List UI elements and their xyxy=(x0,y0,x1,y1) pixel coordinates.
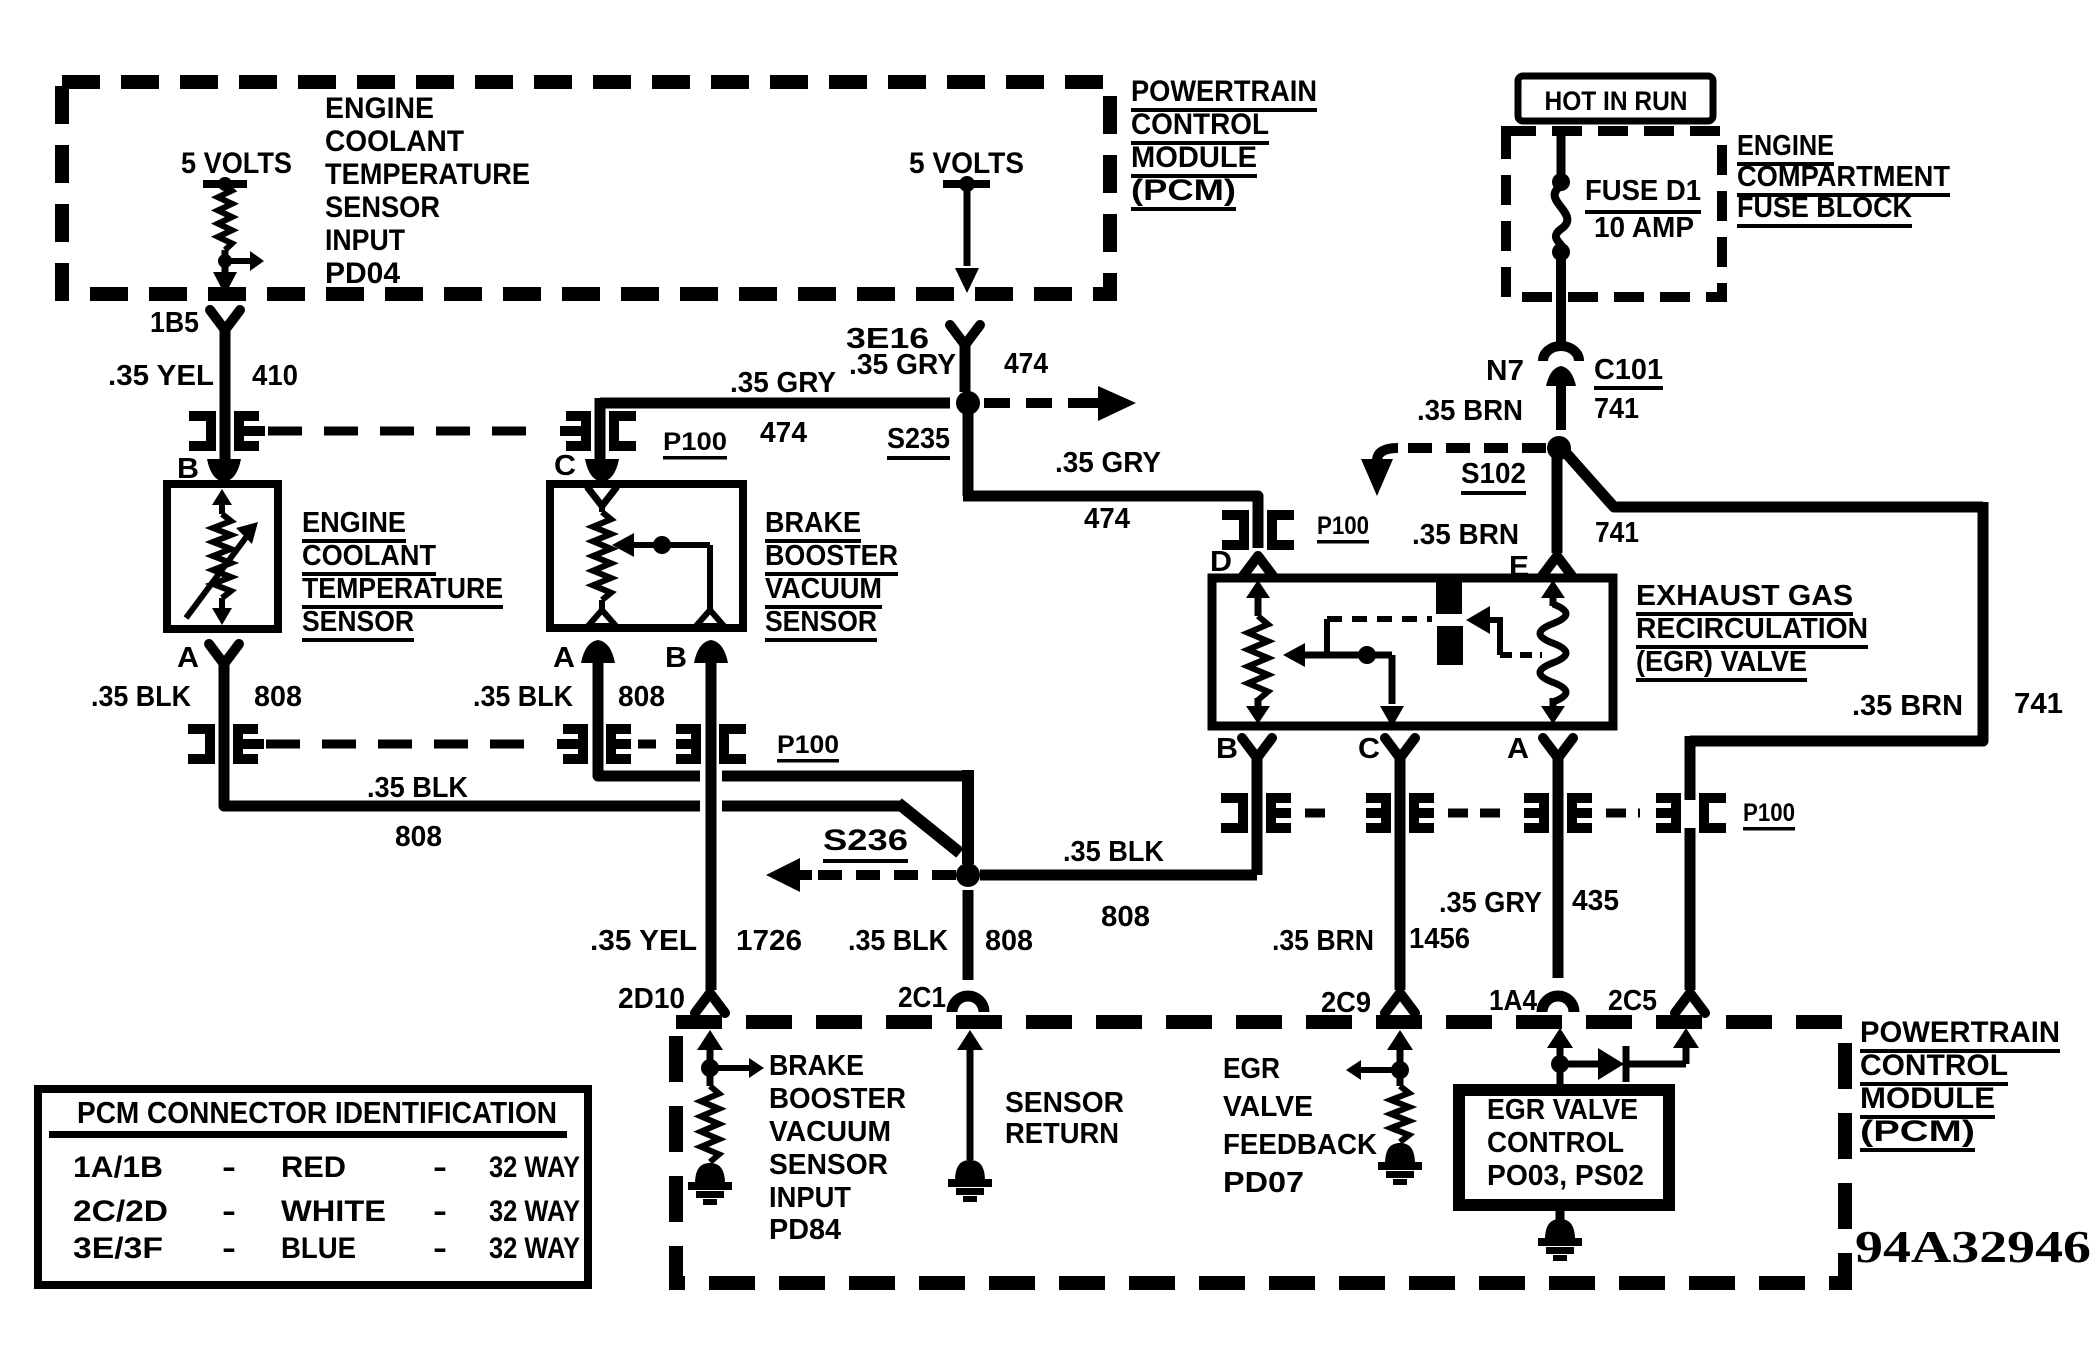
wire 808 BLK horizontal (ECT A to S236) xyxy=(224,800,700,806)
svg-text:INPUT: INPUT xyxy=(769,1182,851,1214)
svg-text:.35 GRY: .35 GRY xyxy=(1055,447,1161,479)
PCM sensor return circuit (2C1): arrow xyxy=(967,1036,974,1160)
svg-text:.35 BRN: .35 BRN xyxy=(1852,690,1963,722)
wire 808 BLK (S236 to 2C1) xyxy=(963,890,974,980)
wire 1456 BRN (EGR C to 2C9) xyxy=(1395,752,1406,990)
PCM module box (top, dashed outline) xyxy=(62,82,1110,294)
svg-text:2C9: 2C9 xyxy=(1321,987,1371,1019)
svg-text:PD07: PD07 xyxy=(1223,1167,1304,1199)
svg-text:32 WAY: 32 WAY xyxy=(489,1195,580,1228)
svg-text:.35 BLK: .35 BLK xyxy=(367,772,468,804)
wire 435 GRY (EGR A to 1A4) xyxy=(1553,752,1564,978)
svg-text:-: - xyxy=(222,1151,236,1184)
svg-text:VACUUM: VACUUM xyxy=(769,1116,891,1148)
wire 741 S102 to PCM 2C5 (right loop) xyxy=(1566,453,1983,507)
svg-text:A: A xyxy=(177,642,199,674)
svg-text:A: A xyxy=(1507,733,1529,765)
svg-text:P100: P100 xyxy=(663,428,727,456)
fuse block box (dashed) xyxy=(1506,131,1722,297)
svg-text:1A4: 1A4 xyxy=(1489,985,1537,1017)
svg-text:EGR: EGR xyxy=(1223,1053,1280,1085)
sensor: engine coolant temperature sensor box xyxy=(167,484,278,629)
ground (EGR valve control) xyxy=(1545,1219,1575,1240)
wire EGR control to ground xyxy=(1556,1205,1565,1220)
terminal 1B5 (PCM) xyxy=(210,310,240,330)
ground (EGR feedback) xyxy=(1385,1143,1415,1164)
svg-text:10 AMP: 10 AMP xyxy=(1594,212,1694,244)
svg-text:.35 BLK: .35 BLK xyxy=(473,681,573,713)
svg-text:3E/3F: 3E/3F xyxy=(73,1232,163,1265)
wire 808 BLK (BB A down/right) xyxy=(593,660,604,776)
svg-text:D: D xyxy=(1210,546,1232,578)
ground (sensor return) xyxy=(955,1160,985,1181)
svg-text:FUSE BLOCK: FUSE BLOCK xyxy=(1737,192,1912,224)
wire S102 dashed branch with arrow (to other circuits) xyxy=(1398,443,1546,453)
svg-text:BOOSTER: BOOSTER xyxy=(769,1083,906,1115)
splice S235 xyxy=(956,391,980,415)
svg-text:.35 BRN: .35 BRN xyxy=(1412,519,1519,551)
EGR wiper (to pin C) xyxy=(1283,643,1305,667)
wire 474 GRY (S235 to EGR D) xyxy=(963,409,974,496)
svg-text:808: 808 xyxy=(985,925,1033,957)
svg-text:5 VOLTS: 5 VOLTS xyxy=(181,147,292,180)
svg-text:S236: S236 xyxy=(823,824,908,857)
svg-text:94A32946: 94A32946 xyxy=(1855,1221,2091,1272)
EGR armature arrow right side xyxy=(1466,606,1490,634)
ground (PD84 circuit) xyxy=(695,1163,725,1184)
svg-text:RED: RED xyxy=(281,1151,346,1184)
svg-text:PD84: PD84 xyxy=(769,1214,841,1246)
svg-text:CONTROL: CONTROL xyxy=(1487,1127,1624,1159)
PCM input PD84 circuit (2D10): arrow, resistor xyxy=(707,1036,714,1086)
svg-text:2D10: 2D10 xyxy=(618,983,685,1015)
svg-text:S102: S102 xyxy=(1461,458,1526,490)
svg-text:E: E xyxy=(1509,551,1529,583)
svg-text:1726: 1726 xyxy=(736,925,802,957)
svg-text:741: 741 xyxy=(2014,688,2063,720)
svg-text:B: B xyxy=(665,642,687,674)
PCM module box (bottom, dashed outline) xyxy=(676,1022,1845,1283)
svg-text:POWERTRAIN: POWERTRAIN xyxy=(1131,75,1317,108)
splice S236 xyxy=(956,863,980,887)
svg-text:PCM CONNECTOR IDENTIFICATION: PCM CONNECTOR IDENTIFICATION xyxy=(77,1095,557,1130)
svg-text:ENGINE: ENGINE xyxy=(1737,130,1834,162)
svg-text:EGR VALVE: EGR VALVE xyxy=(1487,1094,1638,1126)
svg-text:FEEDBACK: FEEDBACK xyxy=(1223,1129,1377,1161)
svg-text:SENSOR: SENSOR xyxy=(1005,1087,1124,1119)
connector P100 row2 (ground wires) xyxy=(188,729,210,759)
svg-text:.35 BRN: .35 BRN xyxy=(1417,395,1523,427)
EGR solenoid armature link (dashed) xyxy=(1324,619,1330,655)
svg-text:435: 435 xyxy=(1572,885,1619,917)
svg-text:COOLANT: COOLANT xyxy=(302,540,436,572)
connector C101 (in-line) xyxy=(1543,346,1579,361)
svg-text:474: 474 xyxy=(1004,348,1048,380)
svg-text:741: 741 xyxy=(1594,393,1639,425)
svg-text:MODULE: MODULE xyxy=(1860,1082,1995,1115)
svg-text:MODULE: MODULE xyxy=(1131,141,1257,174)
PCM EGR valve feedback circuit (2C9): arrow, resistor xyxy=(1397,1036,1404,1086)
wire S236 dashed arrow (to other circuits) xyxy=(812,870,956,880)
svg-text:808: 808 xyxy=(395,821,442,853)
svg-text:BRAKE: BRAKE xyxy=(769,1050,864,1082)
splice S102 xyxy=(1547,436,1571,460)
svg-text:-: - xyxy=(222,1195,236,1228)
svg-text:C101: C101 xyxy=(1594,354,1663,386)
svg-text:(PCM): (PCM) xyxy=(1860,1115,1975,1148)
svg-text:FUSE D1: FUSE D1 xyxy=(1585,175,1701,207)
svg-text:474: 474 xyxy=(1084,503,1130,535)
svg-text:SENSOR: SENSOR xyxy=(769,1149,888,1181)
svg-text:TEMPERATURE: TEMPERATURE xyxy=(302,573,503,605)
svg-text:CONTROL: CONTROL xyxy=(1860,1049,2008,1082)
svg-text:-: - xyxy=(433,1151,447,1184)
svg-text:-: - xyxy=(222,1232,236,1265)
svg-text:BRAKE: BRAKE xyxy=(765,507,861,539)
svg-text:CONTROL: CONTROL xyxy=(1131,108,1269,141)
power label HOT IN RUN box xyxy=(1518,76,1713,121)
svg-text:RECIRCULATION: RECIRCULATION xyxy=(1636,613,1868,645)
table PCM CONNECTOR IDENTIFICATION box xyxy=(38,1089,588,1285)
svg-text:BOOSTER: BOOSTER xyxy=(765,540,898,572)
svg-text:ENGINE: ENGINE xyxy=(302,507,406,539)
svg-text:1A/1B: 1A/1B xyxy=(73,1151,163,1184)
svg-text:POWERTRAIN: POWERTRAIN xyxy=(1860,1016,2060,1049)
svg-text:-: - xyxy=(433,1195,447,1228)
svg-text:2C/2D: 2C/2D xyxy=(73,1195,168,1228)
wire 3E16 down xyxy=(960,339,971,392)
svg-text:410: 410 xyxy=(252,360,298,392)
svg-text:B: B xyxy=(1216,733,1238,765)
svg-text:EXHAUST GAS: EXHAUST GAS xyxy=(1636,580,1853,612)
valve: exhaust gas recirculation (EGR) valve box xyxy=(1212,578,1613,726)
svg-text:808: 808 xyxy=(254,681,302,713)
wire 474 GRY (C to S235) xyxy=(600,398,950,409)
svg-text:P100: P100 xyxy=(1317,512,1369,540)
wire S102 to EGR E xyxy=(1552,454,1563,553)
svg-text:S235: S235 xyxy=(887,423,950,455)
wire HOT IN RUN to fuse xyxy=(1557,131,1566,176)
EGR solenoid core bars xyxy=(1436,578,1462,614)
svg-text:RETURN: RETURN xyxy=(1005,1118,1119,1150)
svg-text:1B5: 1B5 xyxy=(150,307,199,339)
diode D (EGR valve control) xyxy=(1598,1048,1624,1080)
svg-text:.35 BLK: .35 BLK xyxy=(1063,836,1164,868)
sensor: brake booster vacuum sensor box xyxy=(550,484,743,628)
node 5V supply arrow (3E16, down) xyxy=(943,180,990,188)
svg-text:1456: 1456 xyxy=(1409,923,1470,955)
connector P100 row3 (D wire) xyxy=(1222,515,1244,545)
svg-text:.35 GRY: .35 GRY xyxy=(1439,887,1542,919)
svg-text:SENSOR: SENSOR xyxy=(765,606,877,638)
svg-text:N7: N7 xyxy=(1486,355,1524,387)
potentiometer inside BB sensor xyxy=(588,488,616,506)
svg-text:32 WAY: 32 WAY xyxy=(489,1151,580,1184)
EGR solenoid coil (right leg) xyxy=(1550,586,1557,606)
svg-text:COOLANT: COOLANT xyxy=(325,125,464,158)
connector P100 row4 (bottom) xyxy=(1221,798,1243,828)
svg-text:C: C xyxy=(1358,733,1380,765)
wire 808 BLK (EGR B to S236) xyxy=(1252,752,1263,875)
svg-text:ENGINE: ENGINE xyxy=(325,92,434,125)
resistor PCM internal pull-up (ECT 5V supply) xyxy=(203,180,247,188)
svg-text:.35 BLK: .35 BLK xyxy=(848,925,948,957)
svg-text:.35 YEL: .35 YEL xyxy=(590,925,697,957)
svg-text:WHITE: WHITE xyxy=(281,1195,386,1228)
svg-text:2C5: 2C5 xyxy=(1608,985,1657,1017)
wire S235 dashed arrow (to other circuits) xyxy=(984,398,1086,408)
svg-text:808: 808 xyxy=(618,681,665,713)
svg-text:VACUUM: VACUUM xyxy=(765,573,882,605)
svg-text:INPUT: INPUT xyxy=(325,224,405,257)
fuse D1 symbol xyxy=(1552,173,1570,191)
thermistor inside ECT sensor xyxy=(212,489,232,505)
connector P100 row1 (ECT/C wires) xyxy=(189,416,211,446)
svg-text:PO03, PS02: PO03, PS02 xyxy=(1487,1160,1644,1192)
svg-text:.35 BRN: .35 BRN xyxy=(1272,925,1374,957)
svg-text:(EGR) VALVE: (EGR) VALVE xyxy=(1636,646,1807,678)
svg-text:P100: P100 xyxy=(1743,799,1795,827)
wire fuse to C101 xyxy=(1556,256,1566,344)
svg-text:P100: P100 xyxy=(777,731,839,759)
svg-text:SENSOR: SENSOR xyxy=(302,606,414,638)
svg-text:741: 741 xyxy=(1595,517,1639,549)
svg-text:5 VOLTS: 5 VOLTS xyxy=(909,147,1024,180)
EGR pintle position sensor (left leg) xyxy=(1255,586,1262,616)
svg-text:HOT IN RUN: HOT IN RUN xyxy=(1545,86,1688,116)
svg-text:32 WAY: 32 WAY xyxy=(489,1232,580,1265)
svg-text:PD04: PD04 xyxy=(325,257,400,290)
svg-text:VALVE: VALVE xyxy=(1223,1091,1313,1123)
svg-text:2C1: 2C1 xyxy=(898,982,946,1014)
svg-text:TEMPERATURE: TEMPERATURE xyxy=(325,158,530,191)
svg-text:.35 GRY: .35 GRY xyxy=(730,367,836,399)
svg-text:(PCM): (PCM) xyxy=(1131,174,1236,207)
wire 808 BLK (ECT A down) xyxy=(219,658,230,806)
svg-text:-: - xyxy=(433,1232,447,1265)
wire 410 YEL (1B5 to ECT B) xyxy=(220,324,231,460)
svg-text:COMPARTMENT: COMPARTMENT xyxy=(1737,161,1950,193)
svg-text:808: 808 xyxy=(1101,901,1150,933)
wire 1726 YEL (BB B to 2D10) xyxy=(706,660,717,990)
svg-text:SENSOR: SENSOR xyxy=(325,191,440,224)
terminal 3E16 (PCM) xyxy=(950,325,980,345)
svg-text:474: 474 xyxy=(760,417,807,449)
svg-text:BLUE: BLUE xyxy=(281,1232,356,1265)
svg-text:A: A xyxy=(553,642,575,674)
module box EGR VALVE CONTROL xyxy=(1459,1090,1669,1205)
PCM EGR valve control circuit (1A4/2C5): arrows xyxy=(1557,1034,1564,1090)
svg-text:.35 YEL: .35 YEL xyxy=(108,360,214,392)
svg-text:.35 GRY: .35 GRY xyxy=(849,349,956,381)
svg-text:.35 BLK: .35 BLK xyxy=(91,681,191,713)
svg-text:C: C xyxy=(554,450,576,482)
node PD04 output arrow (down) with branch arrow xyxy=(222,250,229,272)
